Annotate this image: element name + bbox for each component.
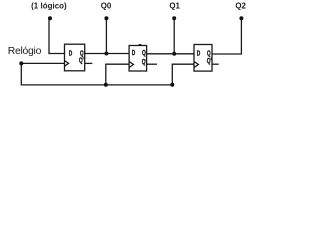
svg-text:Q': Q': [207, 57, 212, 65]
svg-text:(1 lógico): (1 lógico): [31, 1, 67, 10]
svg-text:Q': Q': [142, 58, 147, 66]
svg-text:D: D: [69, 49, 73, 57]
svg-text:D: D: [197, 50, 201, 58]
svg-text:Relógio: Relógio: [8, 46, 42, 57]
svg-text:D: D: [132, 49, 136, 57]
svg-text:Q1: Q1: [169, 1, 180, 10]
svg-text:Q: Q: [142, 49, 146, 57]
svg-text:Q2: Q2: [235, 1, 246, 10]
svg-text:Q0: Q0: [101, 1, 112, 10]
svg-text:Q': Q': [79, 57, 84, 65]
